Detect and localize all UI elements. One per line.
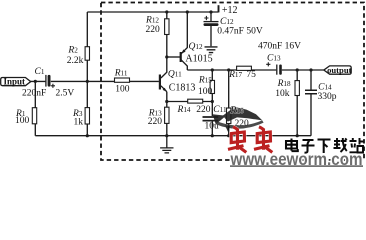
svg-text:C1813: C1813 (169, 83, 196, 94)
wire mid horizontal Q12-collector to output (187, 69, 323, 71)
svg-text:10k: 10k (275, 89, 290, 99)
svg-text:220nF: 220nF (22, 89, 46, 99)
resistor R13 (165, 107, 169, 123)
svg-text:0.47nF 50V: 0.47nF 50V (217, 26, 263, 36)
svg-text:R16: R16 (230, 106, 244, 116)
watermark text 子 (302, 140, 315, 153)
watermark text 下 (318, 140, 331, 154)
node R14 / R15 / C11 (211, 100, 214, 103)
wire Q12 base (167, 56, 180, 58)
node C14 top (309, 68, 312, 71)
resistor R18 (295, 81, 299, 96)
svg-text:1k: 1k (74, 117, 84, 127)
resistor R12 (165, 19, 169, 35)
wire left vertical R2 branch (86, 12, 88, 136)
wire Q11 emitter to R14 node (161, 86, 167, 102)
node rail R16 (227, 134, 230, 137)
wire R18 branch (296, 70, 298, 136)
resistor R11 (115, 78, 130, 82)
wire C12 branch (210, 12, 212, 46)
capacitor C13 (electrolytic) (266, 62, 282, 74)
svg-text:2.5V: 2.5V (56, 89, 75, 99)
svg-text:Q11: Q11 (168, 70, 182, 80)
node top rail / C12 (209, 10, 212, 13)
node rail C11 (211, 134, 214, 137)
wire Q12 emitter to rail (181, 12, 187, 54)
svg-text:C13: C13 (267, 53, 281, 63)
wire Q11 collector (161, 57, 167, 78)
watermark red bug char 1 (228, 127, 246, 153)
svg-text:R15: R15 (198, 75, 212, 85)
svg-text:R18: R18 (277, 79, 291, 89)
resistor R3 (85, 108, 89, 124)
node rail R13/ground (165, 134, 168, 137)
node R2/R3 junction (86, 80, 89, 83)
svg-text:220: 220 (196, 105, 211, 115)
svg-text:A1015: A1015 (185, 53, 212, 64)
svg-text:C1: C1 (35, 67, 45, 77)
watermark text 载 (334, 138, 347, 152)
watermark red bug char 2 (254, 127, 272, 153)
wire input to base (30, 80, 159, 82)
wire bottom ground rail (35, 135, 311, 137)
svg-text:C11: C11 (213, 105, 227, 115)
wire R16 branch (228, 70, 230, 136)
transistor Q11 C1813 (NPN) (160, 75, 167, 92)
wire R12 branch (166, 12, 168, 57)
watermark text 电 (286, 139, 298, 152)
svg-text:www.eeworm.com: www.eeworm.com (230, 149, 363, 167)
wire R13 branch (166, 102, 168, 136)
watermark text 站 (350, 138, 364, 153)
svg-text:100: 100 (115, 85, 130, 95)
svg-text:output: output (327, 65, 351, 75)
resistor R2 (85, 47, 89, 61)
svg-text:330p: 330p (318, 92, 337, 102)
svg-text:470nF 16V: 470nF 16V (258, 41, 301, 51)
wire R14 row (167, 101, 213, 103)
transistor Q12 A1015 (PNP) (181, 49, 186, 62)
svg-text:75: 75 (246, 70, 256, 80)
Input terminal (1, 76, 31, 86)
node input / R1 (34, 80, 37, 83)
svg-text:R17: R17 (228, 70, 242, 80)
watermark bug logo dark wing (213, 107, 264, 132)
wire R1 branch (34, 81, 36, 135)
ground below R13 (160, 136, 173, 153)
svg-text:2.2k: 2.2k (67, 56, 84, 66)
node Q11 emitter / R14 / R13 (165, 100, 168, 103)
node rail R18 (296, 134, 299, 137)
wire C11 branch (211, 102, 213, 136)
output terminal (324, 65, 352, 75)
svg-text:R2: R2 (67, 46, 78, 56)
node R15 top (211, 68, 214, 71)
capacitor C12 (electrolytic) (204, 16, 219, 26)
resistor R16 (227, 108, 231, 124)
watermark url underline (230, 165, 363, 167)
svg-text:220: 220 (146, 25, 161, 35)
svg-text:+12: +12 (222, 5, 238, 16)
node R16 top (227, 68, 230, 71)
svg-text:220: 220 (148, 117, 163, 127)
svg-text:Q12: Q12 (189, 42, 203, 52)
svg-text:R14: R14 (177, 105, 191, 115)
capacitor C11 (203, 117, 219, 121)
svg-text:100: 100 (198, 87, 213, 97)
resistor R14 (188, 99, 203, 103)
wire Q12 collector (181, 60, 187, 70)
resistor R17 (237, 66, 252, 70)
node R18 top (296, 68, 299, 71)
svg-text:100: 100 (15, 116, 30, 126)
ground below C12 (205, 47, 218, 53)
resistor R1 (32, 108, 36, 124)
wire C14 branch (310, 70, 312, 136)
resistor R15 (210, 80, 214, 93)
dashed feedback-network box (101, 3, 364, 161)
node top rail / Q12 emitter (186, 10, 189, 13)
capacitor C1 (electrolytic) (46, 75, 55, 88)
node Q11 collector / Q12 base (165, 55, 168, 58)
svg-text:Input: Input (3, 76, 25, 86)
+12 supply terminal (218, 5, 220, 12)
node top rail / R12 (165, 10, 168, 13)
wire R15 branch (211, 70, 213, 102)
wire top supply rail (87, 11, 218, 13)
capacitor C14 (305, 90, 317, 94)
node rail R3 (86, 134, 89, 137)
svg-text:R11: R11 (114, 69, 128, 79)
